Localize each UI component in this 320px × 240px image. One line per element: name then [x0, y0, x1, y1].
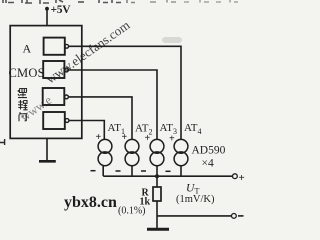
gate 1 (buffer A) box — [44, 38, 65, 55]
gate 4 inverting bubble — [65, 119, 69, 123]
minus terminal label — [238, 215, 244, 217]
svg-text:+: + — [169, 134, 175, 145]
wire bus to resistor R — [156, 176, 158, 187]
sensor AT2 stem to bus — [131, 166, 133, 176]
sensor AT2 circles — [125, 139, 139, 165]
+ output terminal — [233, 174, 238, 179]
minus polarity marks at sensor bottoms — [91, 170, 171, 173]
output bus (summing line) — [103, 175, 232, 177]
wire gate3 output to AT2 sensor top — [68, 97, 132, 140]
gate 3 inverting bubble — [65, 95, 69, 99]
gate 3 box — [43, 88, 65, 105]
gate 1 inverting bubble — [65, 44, 69, 48]
svg-text:+: + — [122, 132, 128, 143]
wire gate4 output to AT1 sensor top — [69, 121, 104, 140]
svg-text:CMOS: CMOS — [9, 66, 45, 80]
sensor AT1 (AD590) circles — [98, 139, 112, 165]
minus output line — [157, 215, 231, 217]
red watermark www.elecfans.com (main diagonal) — [43, 17, 132, 86]
svg-text:+5V: +5V — [51, 4, 72, 16]
minus output terminal — [232, 214, 237, 219]
sensor AT4 circles — [174, 139, 188, 165]
cut-off caption text row at top edge — [3, 0, 238, 4]
gate 4 box — [43, 112, 65, 129]
svg-text:(1mV/K): (1mV/K) — [176, 194, 215, 205]
svg-text:×4: ×4 — [202, 158, 214, 170]
wire from +5V dot to logic-gate box top — [46, 9, 48, 26]
svg-text:(0.1%): (0.1%) — [118, 206, 146, 217]
gate 2 box — [43, 61, 64, 78]
sensor AT1 stem to bus — [102, 166, 104, 176]
svg-text:ybx8.cn: ybx8.cn — [64, 194, 117, 211]
svg-text:+: + — [145, 133, 151, 144]
ground under resistor — [147, 228, 169, 231]
sensor AT3 stem to bus — [156, 166, 158, 176]
sensor AT3 circles — [150, 139, 164, 165]
sensor AT4 stem to bus — [180, 166, 182, 176]
left edge cut mark — [0, 139, 5, 145]
red watermark second tile (partial, lower left) — [18, 93, 55, 125]
+5V supply dot — [45, 7, 49, 11]
gate 2 inverting bubble — [65, 68, 69, 72]
plus polarity marks at sensor tops — [96, 132, 176, 145]
resistor R body — [153, 187, 161, 201]
svg-text:A: A — [23, 42, 32, 56]
wire gate1 output to AT4 sensor top — [69, 46, 181, 139]
ground under logic box — [39, 139, 56, 162]
svg-text:+: + — [239, 172, 245, 184]
wire resistor bottom to ground — [156, 201, 158, 228]
svg-text:AD590: AD590 — [192, 145, 226, 157]
junction node at R — [155, 174, 159, 178]
CMOS logic-gate IC box (U1 outline) — [10, 26, 82, 139]
vertical CJK label 逻辑门 (pseudo-glyphs) — [18, 89, 28, 122]
svg-text:+: + — [96, 132, 102, 143]
wire gate2 output to AT3 sensor top — [68, 70, 157, 140]
faint gray ghost smudge upper right — [162, 37, 182, 43]
